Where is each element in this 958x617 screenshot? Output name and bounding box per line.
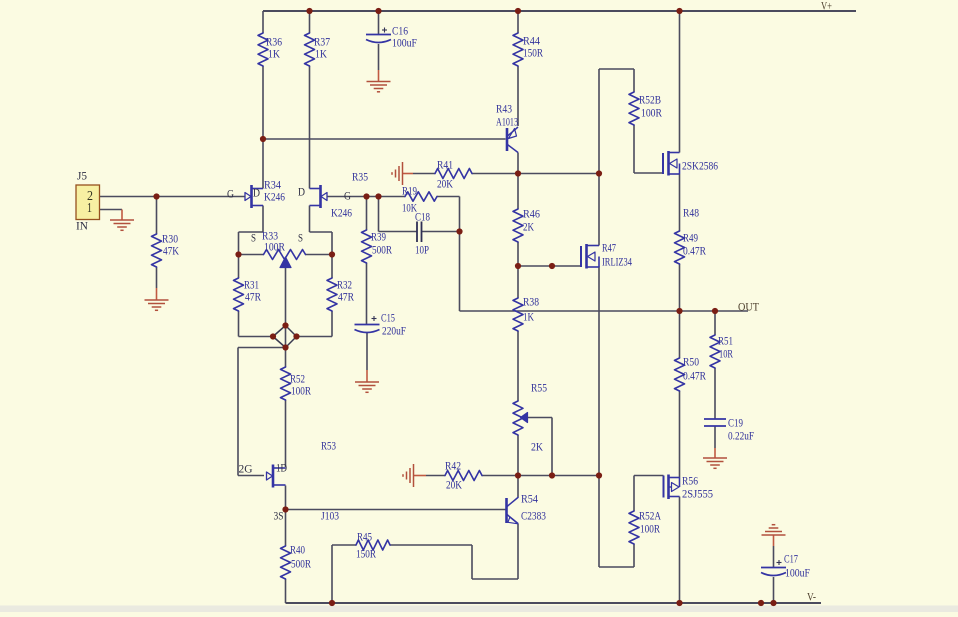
svg-text:D: D [298, 185, 305, 199]
svg-text:20K: 20K [437, 177, 453, 191]
svg-text:R55: R55 [531, 381, 547, 395]
svg-text:2K: 2K [531, 440, 543, 454]
svg-text:R56: R56 [682, 474, 698, 488]
svg-text:100uF: 100uF [392, 36, 417, 50]
svg-text:C15: C15 [381, 311, 395, 325]
svg-text:0.47R: 0.47R [683, 244, 706, 258]
svg-text:K246: K246 [264, 190, 285, 204]
svg-text:10P: 10P [415, 243, 429, 257]
svg-text:C19: C19 [728, 416, 743, 430]
svg-text:R47: R47 [602, 241, 616, 255]
svg-text:V-: V- [807, 590, 816, 604]
svg-text:R42: R42 [445, 459, 461, 473]
svg-text:500R: 500R [291, 557, 311, 571]
svg-text:R52B: R52B [639, 93, 661, 107]
svg-text:IN: IN [76, 219, 88, 233]
svg-text:150R: 150R [356, 547, 376, 561]
svg-text:2K: 2K [523, 220, 534, 234]
svg-text:G: G [344, 189, 351, 203]
svg-text:500R: 500R [372, 243, 392, 257]
svg-text:47R: 47R [245, 290, 261, 304]
svg-text:0.22uF: 0.22uF [728, 429, 754, 443]
svg-text:J5: J5 [77, 169, 87, 183]
svg-text:C2383: C2383 [521, 509, 546, 523]
svg-text:100R: 100R [641, 106, 662, 120]
svg-text:R19: R19 [402, 184, 417, 198]
svg-text:47R: 47R [338, 290, 354, 304]
svg-text:C18: C18 [415, 210, 430, 224]
svg-text:1K: 1K [523, 310, 534, 324]
svg-text:G: G [227, 187, 234, 201]
svg-text:S: S [251, 231, 256, 245]
svg-text:R53: R53 [321, 439, 336, 453]
svg-text:3S: 3S [274, 509, 284, 523]
svg-text:V+: V+ [821, 0, 832, 13]
svg-text:1: 1 [87, 201, 92, 216]
svg-text:R51: R51 [718, 334, 733, 348]
svg-text:R41: R41 [437, 158, 453, 172]
svg-text:R43: R43 [496, 102, 512, 116]
svg-text:47K: 47K [163, 244, 179, 258]
svg-text:150R: 150R [523, 46, 543, 60]
svg-text:220uF: 220uF [382, 324, 406, 338]
svg-text:R54: R54 [521, 492, 538, 506]
svg-text:R50: R50 [683, 355, 699, 369]
svg-text:20K: 20K [446, 478, 462, 492]
svg-text:A1013: A1013 [496, 115, 518, 129]
svg-text:2SJ555: 2SJ555 [682, 487, 713, 501]
svg-text:100R: 100R [640, 522, 660, 536]
svg-text:R35: R35 [352, 170, 368, 184]
svg-text:R49: R49 [683, 231, 698, 245]
svg-text:2SK2586: 2SK2586 [682, 159, 718, 173]
svg-text:1D: 1D [276, 461, 287, 475]
svg-text:1K: 1K [315, 47, 327, 61]
svg-text:0.47R: 0.47R [683, 369, 706, 383]
svg-text:100R: 100R [291, 384, 311, 398]
svg-text:100uF: 100uF [785, 566, 810, 580]
svg-text:R40: R40 [290, 543, 305, 557]
svg-text:IRLIZ34: IRLIZ34 [602, 255, 632, 269]
svg-text:R46: R46 [523, 207, 540, 221]
svg-text:R48: R48 [683, 206, 699, 220]
svg-text:2G: 2G [239, 462, 253, 476]
svg-text:D: D [253, 186, 260, 200]
svg-text:R45: R45 [357, 530, 372, 544]
svg-text:R52A: R52A [639, 509, 661, 523]
svg-text:OUT: OUT [738, 300, 760, 314]
svg-text:C17: C17 [784, 552, 798, 566]
svg-text:K246: K246 [331, 206, 352, 220]
svg-text:J103: J103 [321, 509, 339, 523]
svg-text:R39: R39 [371, 230, 386, 244]
svg-text:10R: 10R [719, 347, 733, 361]
svg-text:R38: R38 [523, 295, 539, 309]
svg-text:S: S [298, 231, 303, 245]
svg-text:1K: 1K [268, 47, 280, 61]
svg-text:100R: 100R [264, 240, 285, 254]
